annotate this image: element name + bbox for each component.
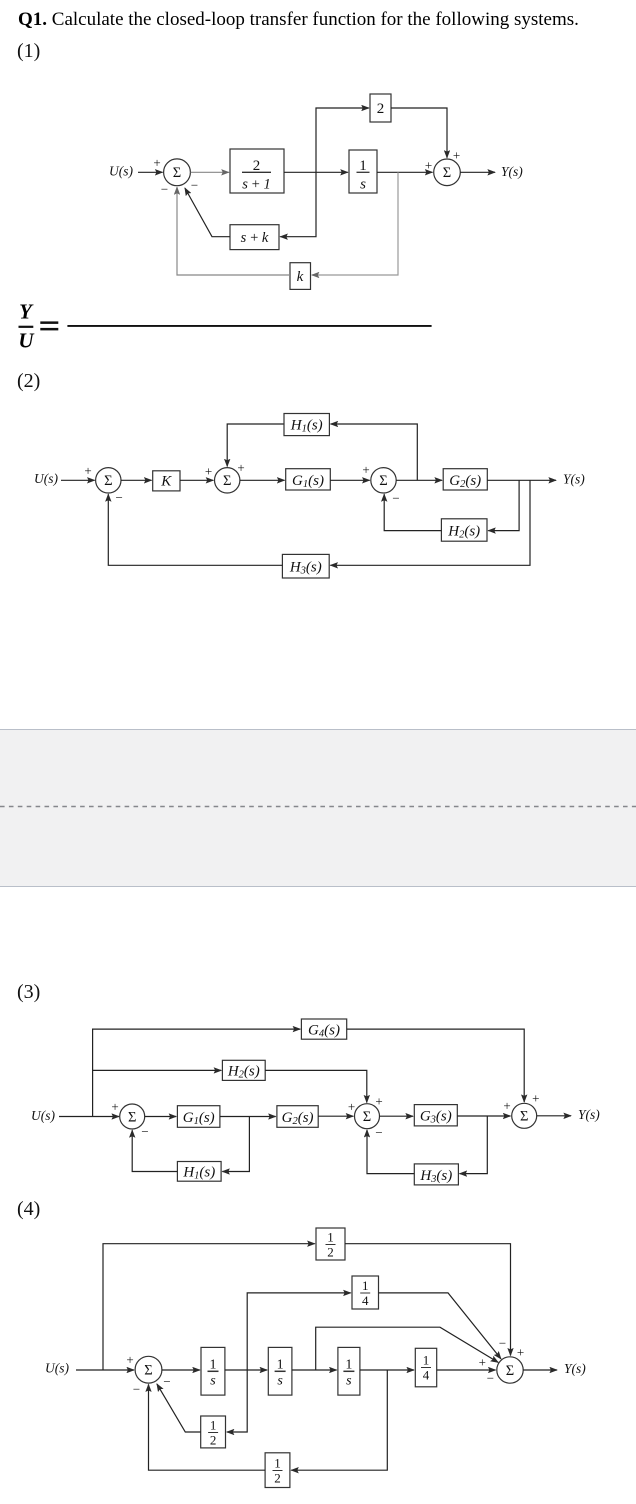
DIAGRAM 3 bbox=[0, 1010, 636, 1200]
gray separator band bbox=[0, 729, 636, 887]
title Q1 bbox=[18, 9, 579, 31]
svg-text:−: − bbox=[375, 1125, 382, 1140]
block G4(s) bbox=[301, 1019, 346, 1040]
block 1/s bbox=[349, 150, 377, 193]
svg-text:G3(s): G3(s) bbox=[420, 1109, 452, 1126]
plus sign at S2 top input bbox=[237, 460, 244, 475]
plus sign at S2 left input bbox=[479, 1354, 486, 1369]
svg-text:1: 1 bbox=[327, 1230, 334, 1245]
wire U(s) to summer S1 with junction bbox=[59, 1116, 119, 1118]
svg-text:G2(s): G2(s) bbox=[282, 1110, 314, 1127]
svg-text:s: s bbox=[277, 1373, 283, 1388]
svg-text:+: + bbox=[84, 463, 91, 478]
wire 1/4 upper to S2 diagonal bbox=[379, 1293, 502, 1359]
svg-text:1: 1 bbox=[210, 1418, 217, 1433]
plus sign at S2 left input bbox=[205, 464, 212, 479]
svg-text:+: + bbox=[126, 1352, 133, 1367]
gain block 1/4 upper bbox=[352, 1276, 379, 1309]
svg-text:−: − bbox=[161, 182, 168, 197]
wire gain 2 to summer S2 top bbox=[391, 108, 447, 158]
svg-text:2: 2 bbox=[253, 158, 261, 174]
block G1(s) bbox=[177, 1106, 220, 1128]
minus sign at S3 bottom input bbox=[392, 490, 399, 505]
svg-text:+: + bbox=[479, 1354, 486, 1369]
wire U(s) to summer S1 bbox=[61, 479, 95, 481]
wire junction B up to gain 1/4 branch bbox=[247, 1293, 351, 1370]
wire junction down to gain k bbox=[312, 172, 398, 275]
integrator block 1/s #1 bbox=[201, 1347, 225, 1395]
wire H2 output to S3 bottom bbox=[384, 494, 441, 530]
label (3) bbox=[17, 981, 40, 1004]
svg-text:s: s bbox=[346, 1373, 352, 1388]
integrator block 1/s #2 bbox=[268, 1347, 292, 1395]
wire 1/2 feedback to S1 diagonal bbox=[157, 1384, 201, 1432]
svg-text:+: + bbox=[503, 1098, 510, 1113]
svg-text:−: − bbox=[191, 178, 198, 193]
svg-text:Σ: Σ bbox=[173, 165, 181, 181]
wire junction D down to gain 1/2 bottom bbox=[291, 1370, 387, 1470]
svg-text:U(s): U(s) bbox=[45, 1360, 69, 1375]
svg-text:Y(s): Y(s) bbox=[578, 1107, 600, 1122]
node U(s) input label bbox=[109, 164, 133, 179]
svg-text:G1(s): G1(s) bbox=[183, 1110, 215, 1127]
node U(s) input label bbox=[45, 1360, 69, 1375]
numerator Y bbox=[19, 300, 34, 324]
wire 1/s #1 to 1/s #2 with junction B bbox=[225, 1369, 267, 1371]
plus sign at S3 left input bbox=[362, 462, 369, 477]
svg-text:+: + bbox=[205, 464, 212, 479]
svg-text:1: 1 bbox=[423, 1353, 430, 1368]
svg-text:H3(s): H3(s) bbox=[289, 560, 322, 577]
wire junction down to H1 input bbox=[222, 1117, 249, 1172]
wire G2 to summer S2 bbox=[318, 1115, 353, 1117]
wire K to summer S2 bbox=[180, 479, 213, 481]
svg-text:Σ: Σ bbox=[104, 473, 112, 489]
node U(s) input label bbox=[34, 471, 58, 486]
svg-text:+: + bbox=[348, 1099, 355, 1114]
svg-text:1: 1 bbox=[362, 1278, 369, 1293]
svg-text:−: − bbox=[116, 490, 123, 505]
wire junction up to G4 branch bbox=[93, 1029, 301, 1116]
svg-text:+: + bbox=[153, 155, 160, 170]
svg-text:k: k bbox=[297, 269, 304, 285]
wire U(s) to summer S1 bbox=[138, 171, 163, 173]
summer S3 bbox=[371, 468, 396, 493]
wire 1/2 bottom to S1 bottom bbox=[149, 1384, 266, 1470]
plus sign at S2 left input bbox=[425, 158, 432, 173]
svg-text:2: 2 bbox=[210, 1433, 217, 1448]
gain block k bbox=[290, 263, 311, 290]
svg-text:s + k: s + k bbox=[241, 230, 269, 246]
wire H1 output to S1 bottom bbox=[132, 1130, 177, 1171]
DIAGRAM 4 bbox=[0, 1215, 636, 1504]
svg-text:H1(s): H1(s) bbox=[290, 417, 323, 434]
summer S1 bbox=[96, 468, 121, 493]
svg-text:+: + bbox=[237, 460, 244, 475]
gain block 1/2 top bbox=[316, 1228, 345, 1260]
svg-text:Σ: Σ bbox=[363, 1109, 371, 1125]
DIAGRAM 2 bbox=[0, 400, 636, 600]
summer S1 bbox=[120, 1104, 145, 1129]
gain block 1/4 right bbox=[415, 1348, 436, 1387]
plus sign at S3 top input bbox=[532, 1091, 539, 1106]
svg-text:H2(s): H2(s) bbox=[227, 1064, 260, 1081]
plus sign at S2 top input bbox=[453, 148, 460, 163]
block G3(s) bbox=[414, 1105, 457, 1127]
svg-text:G4(s): G4(s) bbox=[308, 1022, 340, 1039]
minus sign at S1 bottom input bbox=[161, 182, 168, 197]
svg-text:Y: Y bbox=[19, 300, 34, 324]
gain block 2 bbox=[370, 94, 391, 122]
svg-text:Σ: Σ bbox=[144, 1363, 152, 1379]
svg-text:−: − bbox=[133, 1382, 140, 1397]
svg-text:G1(s): G1(s) bbox=[292, 473, 324, 490]
fraction bar bbox=[19, 326, 34, 328]
block G2(s) bbox=[277, 1106, 318, 1128]
svg-text:−: − bbox=[163, 1374, 170, 1389]
wire junction to H2 branch bbox=[93, 1069, 222, 1071]
wire G3 to summer S3 with junction to H3 bbox=[457, 1115, 510, 1117]
svg-text:+: + bbox=[111, 1099, 118, 1114]
block H3(s) bbox=[414, 1164, 458, 1185]
summer S2 bbox=[215, 468, 240, 493]
wire S3 to block G2 with junction to H1 bbox=[396, 479, 442, 481]
node Y(s) output label bbox=[501, 164, 523, 179]
wire S2 to Y(s) output bbox=[460, 171, 495, 173]
svg-text:+: + bbox=[425, 158, 432, 173]
block s+k bbox=[230, 225, 279, 250]
svg-text:+: + bbox=[532, 1091, 539, 1106]
svg-text:2: 2 bbox=[327, 1245, 334, 1260]
label (2) bbox=[17, 370, 40, 393]
minus sign at S2 top input bbox=[499, 1336, 506, 1351]
wire U(s) to summer S1 with junction bbox=[76, 1369, 134, 1371]
wire 1/s #2 to 1/s #3 with junction C bbox=[292, 1369, 337, 1371]
wire 1/4 right to summer S2 bbox=[437, 1369, 496, 1371]
svg-text:1: 1 bbox=[359, 158, 367, 174]
equals sign bbox=[40, 321, 58, 330]
svg-text:1: 1 bbox=[345, 1357, 352, 1372]
wire s+k to S1 diagonal bbox=[185, 188, 230, 237]
answer blank line bbox=[67, 325, 431, 327]
svg-text:4: 4 bbox=[423, 1368, 430, 1383]
svg-text:+: + bbox=[517, 1345, 524, 1360]
minus sign at S2 bottom input bbox=[375, 1125, 382, 1140]
wire junction up to gain block 2 bbox=[316, 108, 369, 172]
block H2(s) bbox=[222, 1060, 265, 1081]
block G1(s) bbox=[286, 469, 331, 491]
svg-text:H2(s): H2(s) bbox=[447, 523, 480, 540]
wire G4 output to summer S3 top bbox=[347, 1029, 525, 1102]
plus sign at S2 left input bbox=[348, 1099, 355, 1114]
wire junction up to gain 1/2 top branch bbox=[103, 1244, 315, 1370]
svg-text:Σ: Σ bbox=[443, 165, 451, 181]
svg-text:−: − bbox=[392, 490, 399, 505]
minus sign at S1 diagonal input bbox=[191, 178, 198, 193]
svg-text:+: + bbox=[375, 1094, 382, 1109]
svg-text:−: − bbox=[499, 1336, 506, 1351]
minus sign at S1 right diagonal input bbox=[163, 1374, 170, 1389]
svg-text:G2(s): G2(s) bbox=[449, 473, 481, 490]
gain block K bbox=[153, 471, 180, 491]
minus sign at S1 bottom input bbox=[141, 1124, 148, 1139]
svg-text:s: s bbox=[360, 177, 366, 193]
gain block 1/2 feedback bbox=[201, 1416, 226, 1448]
wire junction down to H3 input bbox=[460, 1116, 488, 1174]
svg-text:H1(s): H1(s) bbox=[182, 1165, 215, 1182]
wire H3 output to S1 bottom bbox=[108, 494, 282, 565]
svg-text:Y(s): Y(s) bbox=[501, 164, 523, 179]
block H1(s) bbox=[284, 414, 329, 436]
wire output junction down to H3 input bbox=[330, 480, 530, 565]
svg-text:H3(s): H3(s) bbox=[419, 1168, 452, 1185]
block 2/(s+1) bbox=[230, 149, 284, 193]
svg-text:Y(s): Y(s) bbox=[563, 472, 585, 487]
node U(s) input label bbox=[31, 1108, 55, 1123]
svg-text:Σ: Σ bbox=[379, 473, 387, 489]
wire S3 to Y(s) output bbox=[537, 1115, 571, 1117]
svg-text:Σ: Σ bbox=[506, 1363, 514, 1379]
wire junction down to block s+k bbox=[280, 172, 316, 236]
svg-text:1: 1 bbox=[274, 1456, 281, 1471]
wire S1 to integrator 1/s #1 bbox=[162, 1369, 200, 1371]
svg-text:+: + bbox=[362, 462, 369, 477]
summer S3 bbox=[512, 1103, 537, 1128]
summer S2 bbox=[497, 1357, 523, 1383]
integrator block 1/s #3 bbox=[338, 1347, 360, 1395]
svg-text:U(s): U(s) bbox=[34, 471, 58, 486]
svg-text:Σ: Σ bbox=[520, 1109, 528, 1125]
plus sign at S3 left input bbox=[503, 1098, 510, 1113]
wire H2 output to summer S2 top bbox=[265, 1070, 367, 1102]
wire junction C up and to S2 diagonal bbox=[316, 1327, 499, 1370]
wire S2 to block G1 bbox=[240, 479, 285, 481]
plus sign at S2 top-right bbox=[517, 1345, 524, 1360]
svg-text:2: 2 bbox=[377, 101, 385, 117]
equation Y/U = answer-line bbox=[17, 300, 437, 356]
plus sign at S1 left input bbox=[84, 463, 91, 478]
node Y(s) output label bbox=[564, 1361, 586, 1376]
block H2(s) bbox=[441, 519, 487, 541]
plus sign at S1 left input bbox=[153, 155, 160, 170]
svg-text:Y(s): Y(s) bbox=[564, 1361, 586, 1376]
wire S1 to block 2/(s+1) bbox=[191, 171, 229, 173]
plus sign at S1 left input bbox=[111, 1099, 118, 1114]
wire junction up to H1 input bbox=[331, 424, 418, 480]
summer S2 bbox=[434, 159, 461, 186]
minus sign at S1 lower-left input bbox=[133, 1382, 140, 1397]
wire 1/s to summer S2 with junction bbox=[377, 171, 432, 173]
svg-text:U: U bbox=[18, 329, 35, 353]
svg-text:1: 1 bbox=[277, 1357, 284, 1372]
node Y(s) output label bbox=[578, 1107, 600, 1122]
wire 1/2 top to summer S2 top bbox=[345, 1244, 511, 1356]
svg-text:s + 1: s + 1 bbox=[242, 177, 270, 193]
block H1(s) bbox=[177, 1162, 221, 1182]
svg-text:K: K bbox=[160, 473, 172, 489]
plus sign at S2 top input bbox=[375, 1094, 382, 1109]
svg-text:4: 4 bbox=[362, 1293, 369, 1308]
plus sign at S1 left input bbox=[126, 1352, 133, 1367]
wire G2 to Y(s) output bbox=[487, 479, 556, 481]
dashed cut line bbox=[0, 800, 636, 812]
wire output junction down to H2 input bbox=[488, 480, 519, 530]
label (1) bbox=[17, 40, 40, 63]
wire block 2/(s+1) to block 1/s with junction bbox=[284, 171, 348, 173]
wire S1 to gain K bbox=[121, 479, 152, 481]
node Y(s) output label bbox=[563, 472, 585, 487]
wire G1 to G2 with junction to H1 bbox=[220, 1116, 276, 1118]
svg-text:−: − bbox=[487, 1371, 494, 1386]
svg-text:+: + bbox=[453, 148, 460, 163]
summer S1 bbox=[164, 159, 191, 186]
block H3(s) bbox=[282, 554, 329, 578]
minus sign at S2 lower-left input bbox=[487, 1371, 494, 1386]
wire G1 to summer S3 bbox=[330, 479, 369, 481]
denominator U bbox=[18, 329, 35, 353]
DIAGRAM 1 bbox=[0, 0, 636, 300]
svg-text:s: s bbox=[210, 1373, 216, 1388]
svg-text:−: − bbox=[141, 1124, 148, 1139]
wire 1/s #3 to gain 1/4 with junction D bbox=[360, 1369, 414, 1371]
summer S2 bbox=[355, 1104, 380, 1129]
wire H1 output to S2 top bbox=[227, 424, 284, 466]
wire gain k to S1 bottom bbox=[177, 187, 290, 275]
svg-text:2: 2 bbox=[274, 1471, 281, 1486]
summer S1 bbox=[135, 1356, 162, 1383]
wire H3 output to S2 bottom bbox=[367, 1130, 414, 1174]
svg-text:1: 1 bbox=[210, 1357, 217, 1372]
wire S2 to Y(s) output bbox=[523, 1369, 557, 1371]
minus sign at S1 bottom input bbox=[116, 490, 123, 505]
wire S2 to block G3 bbox=[380, 1115, 414, 1117]
svg-text:U(s): U(s) bbox=[109, 164, 133, 179]
gain block 1/2 bottom bbox=[265, 1453, 290, 1488]
svg-text:U(s): U(s) bbox=[31, 1108, 55, 1123]
wire S1 to block G1 bbox=[145, 1116, 177, 1118]
label (4) bbox=[17, 1198, 40, 1221]
svg-text:Σ: Σ bbox=[223, 473, 231, 489]
svg-text:Σ: Σ bbox=[128, 1109, 136, 1125]
block G2(s) bbox=[443, 469, 487, 491]
wire junction B down to gain 1/2 feedback bbox=[227, 1370, 247, 1432]
